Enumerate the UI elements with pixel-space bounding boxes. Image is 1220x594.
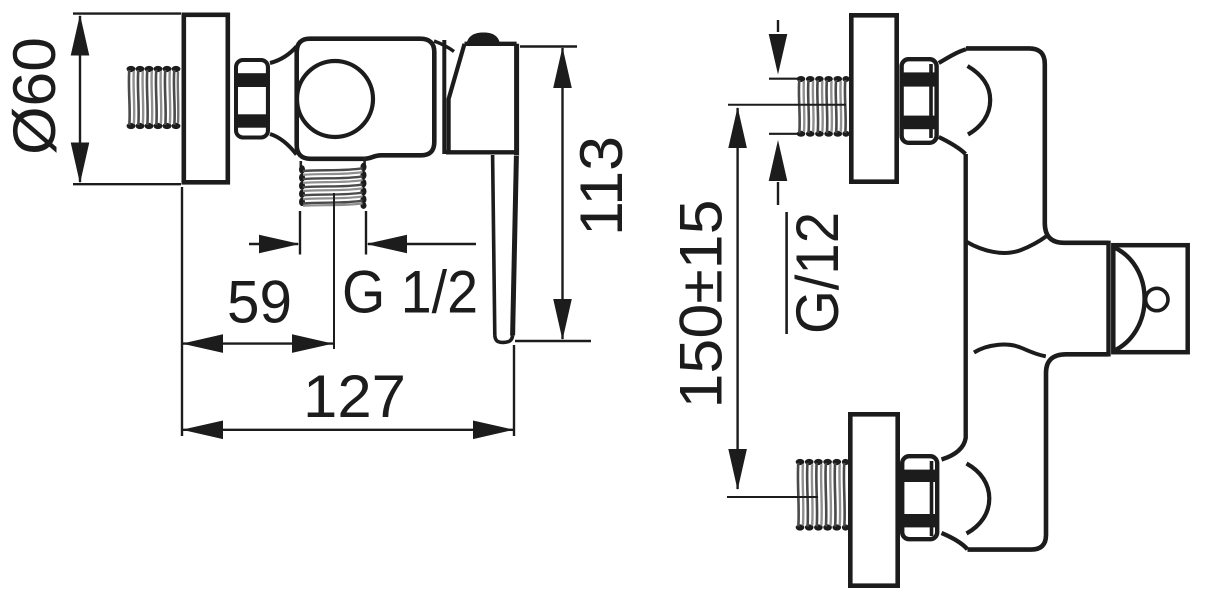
neck between nut and body (side view)	[270, 47, 297, 155]
dimension 150±15	[736, 108, 738, 489]
inlet thread (side view)	[127, 66, 181, 129]
svg-text:150±15: 150±15	[668, 200, 735, 409]
top inlet thread (front view)	[797, 76, 850, 137]
handle base (side view)	[446, 44, 517, 156]
dimension 113	[515, 47, 591, 342]
body right band line	[442, 40, 446, 154]
bottom escutcheon (front view)	[850, 414, 897, 585]
outlet thread (side view)	[299, 157, 367, 209]
dimension G/12	[769, 20, 799, 205]
handle lever (side view)	[493, 155, 517, 342]
bottom hex nut (front view)	[901, 456, 937, 539]
bottom inlet thread (front view)	[796, 459, 849, 531]
svg-text:G/12: G/12	[784, 212, 851, 334]
mixer body (side view)	[297, 39, 435, 159]
dimension 59	[182, 342, 333, 344]
centerline top inlet	[728, 104, 846, 106]
svg-text:Ø60: Ø60	[1, 37, 68, 155]
handle cap button	[467, 33, 501, 45]
hex nut (side view)	[235, 60, 269, 138]
svg-text:127: 127	[303, 363, 406, 430]
body surface wave top	[966, 237, 1046, 253]
dimension G 1/2	[249, 211, 476, 255]
cartridge circle (side view)	[297, 61, 373, 137]
transition curve body to handle	[434, 41, 454, 52]
top neck curves (front view)	[939, 49, 966, 154]
body outline (front view)	[942, 48, 1109, 549]
G/12 label line	[785, 212, 788, 334]
dimension Ø60	[73, 14, 181, 185]
wall plate escutcheon (side view)	[184, 15, 228, 183]
svg-text:59: 59	[227, 269, 292, 336]
dimension 127	[182, 187, 514, 436]
top hex nut (front view)	[901, 59, 937, 143]
svg-text:G 1/2: G 1/2	[342, 259, 478, 326]
bottom ball joint cup arc	[967, 464, 990, 534]
handle end-on (front view)	[1113, 245, 1187, 352]
top escutcheon (front view)	[851, 15, 896, 181]
top ball joint cup arc	[968, 66, 991, 135]
svg-text:113: 113	[568, 136, 635, 236]
centerline bottom inlet	[727, 496, 818, 498]
body surface wave bottom	[974, 345, 1046, 357]
outlet centerline	[333, 193, 335, 349]
